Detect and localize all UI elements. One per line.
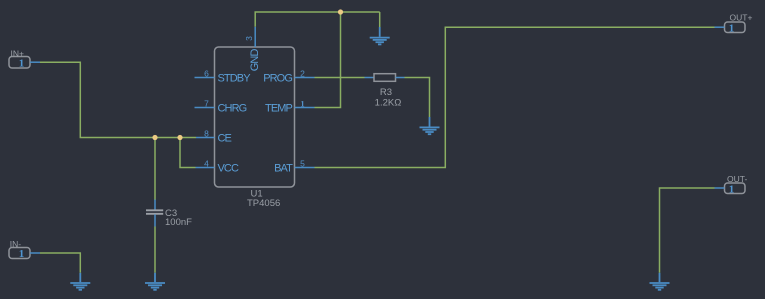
ground (OUT- net) [650, 273, 670, 290]
svg-text:OUT+: OUT+ [730, 13, 753, 23]
wire C3 to ground [154, 227, 156, 273]
svg-text:2: 2 [300, 68, 305, 78]
port OUT+ [715, 13, 753, 35]
svg-text:100nF: 100nF [165, 217, 192, 228]
wire C3 branch upper [154, 138, 156, 201]
svg-text:CE: CE [218, 133, 232, 145]
wire GND pin to top rail [255, 12, 380, 27]
junction (CE / C3) [152, 135, 157, 140]
svg-text:4: 4 [204, 158, 209, 168]
capacitor C3 [146, 200, 192, 228]
ground (IN- net) [70, 273, 90, 290]
pin 7 CHRG [195, 98, 247, 114]
wire IN+ to CE [40, 62, 196, 137]
ground (top rail) [370, 27, 390, 44]
svg-text:5: 5 [300, 158, 305, 168]
svg-text:1: 1 [300, 98, 304, 108]
svg-text:CHRG: CHRG [218, 103, 247, 115]
svg-text:VCC: VCC [218, 163, 239, 175]
svg-text:GND: GND [249, 49, 261, 72]
wire TEMP branch [315, 12, 341, 108]
wire VCC branch [180, 138, 196, 168]
pin 5 BAT [274, 158, 314, 174]
svg-text:1: 1 [19, 57, 25, 69]
pin 8 CE [196, 128, 232, 144]
pin 2 PROG [263, 68, 314, 84]
svg-text:1.2KΩ: 1.2KΩ [375, 98, 402, 109]
svg-text:8: 8 [204, 128, 209, 138]
wire R3 to ground [405, 78, 430, 118]
wire OUT- to ground [660, 188, 715, 273]
wire PROG to R3 [315, 77, 365, 79]
port IN- [9, 239, 40, 260]
pin 6 STDBY [195, 68, 252, 84]
wire IN- to ground [40, 253, 80, 273]
pin 1 TEMP [265, 98, 314, 114]
svg-text:3: 3 [244, 36, 254, 41]
svg-text:1: 1 [729, 22, 735, 34]
port IN+ [9, 48, 40, 69]
svg-text:PROG: PROG [263, 73, 292, 85]
wire BAT to OUT+ [315, 27, 715, 167]
resistor R3 [365, 74, 405, 109]
svg-text:R3: R3 [380, 87, 392, 98]
svg-text:6: 6 [204, 68, 209, 78]
svg-text:TP4056: TP4056 [247, 198, 280, 209]
pin 3 GND [244, 27, 261, 71]
port OUT- [715, 174, 748, 195]
svg-text:BAT: BAT [274, 163, 293, 175]
svg-text:1: 1 [19, 248, 25, 260]
junction (GND rail / TEMP branch) [338, 9, 343, 14]
svg-text:7: 7 [204, 98, 209, 108]
pin 4 VCC [196, 158, 239, 174]
svg-text:TEMP: TEMP [265, 103, 293, 115]
svg-text:1: 1 [729, 183, 735, 195]
svg-text:STDBY: STDBY [218, 73, 252, 85]
wire top rail to ground [379, 12, 381, 27]
ground (C3 net) [145, 273, 165, 290]
ground (R3 net) [420, 117, 440, 134]
junction (CE / VCC) [177, 135, 182, 140]
op-amp U1 body [215, 47, 295, 187]
